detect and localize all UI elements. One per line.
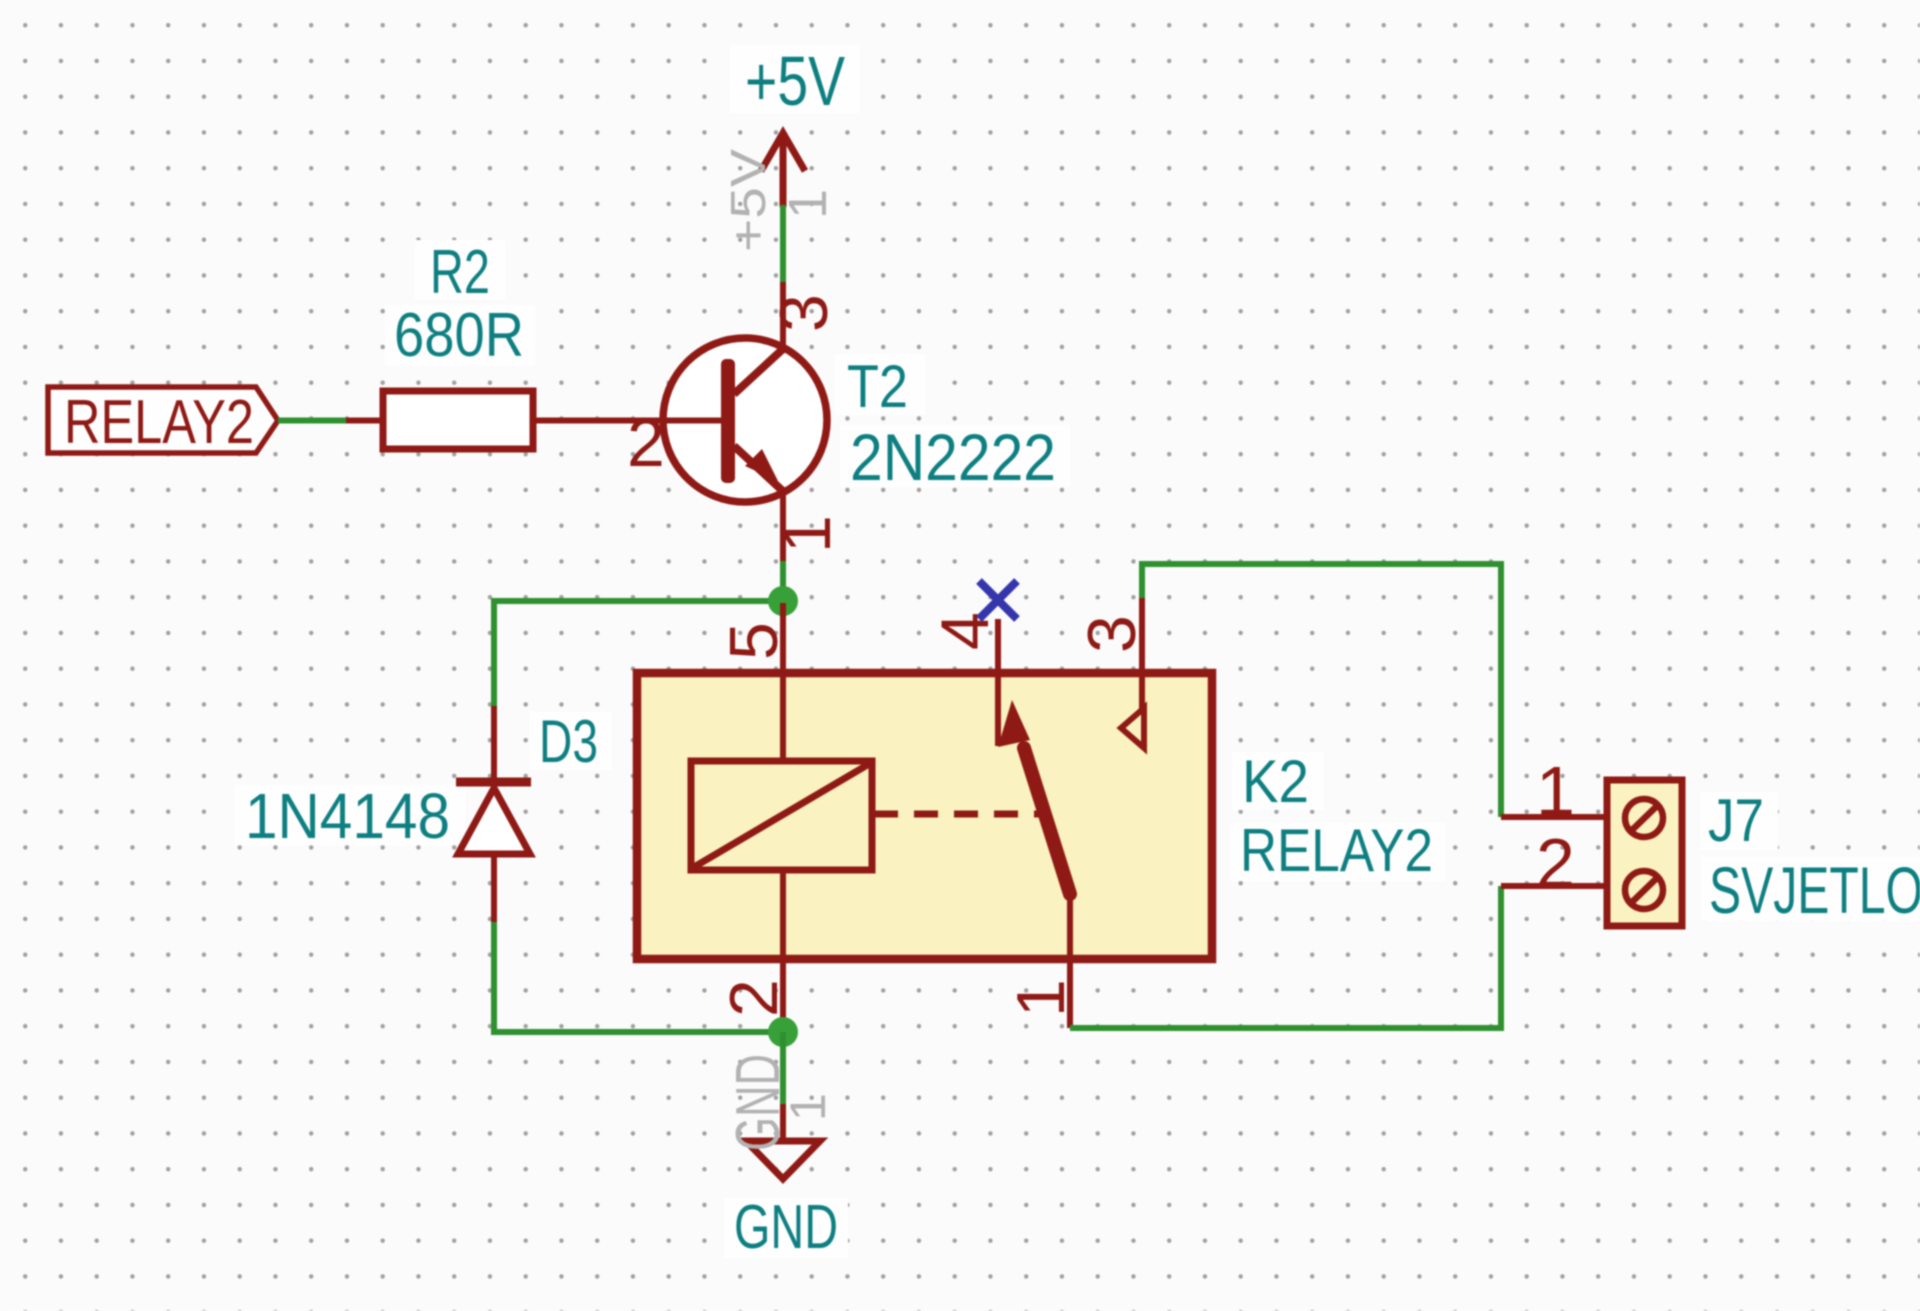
relay K2 body <box>637 673 1212 959</box>
transistor T2 pin 1 (emitter) <box>780 494 786 562</box>
svg-text:1N4148: 1N4148 <box>245 780 450 852</box>
svg-text:RELAY2: RELAY2 <box>1240 817 1433 884</box>
connector J7 screw 2 <box>1625 871 1663 909</box>
diode D3 cathode pin <box>491 706 497 782</box>
transistor T2 pin 3 <box>780 282 786 348</box>
junction dot B (GND) <box>768 1017 798 1047</box>
svg-text:SVJETLO: SVJETLO <box>1709 853 1920 927</box>
svg-text:K2: K2 <box>1242 748 1309 815</box>
diode D3 triangle <box>458 788 530 854</box>
connector J7 body <box>1607 780 1682 926</box>
svg-text:4: 4 <box>927 612 1003 650</box>
wire +5V to T2 collector <box>780 205 786 284</box>
svg-text:1: 1 <box>1003 979 1079 1017</box>
transistor T2 collector stroke <box>734 348 784 394</box>
diode D3 anode pin <box>491 854 497 923</box>
relay pin 5 <box>780 603 786 761</box>
wire junction to GND <box>780 1032 786 1104</box>
relay pin 3 contact triangle <box>1121 708 1144 748</box>
svg-text:1: 1 <box>778 189 838 219</box>
svg-text:+5V: +5V <box>745 42 845 120</box>
svg-text:T2: T2 <box>847 353 908 420</box>
relay pin 4 <box>995 619 1001 746</box>
wire relay pin3 to J7 pin1 <box>1142 564 1501 817</box>
svg-text:R2: R2 <box>430 238 490 307</box>
junction dot A <box>768 586 798 616</box>
svg-text:3: 3 <box>766 294 842 332</box>
svg-text:2: 2 <box>1536 824 1575 902</box>
svg-text:J7: J7 <box>1708 787 1764 854</box>
no-connect X <box>979 581 1017 619</box>
svg-text:D3: D3 <box>539 708 598 775</box>
svg-text:GND: GND <box>734 1193 838 1262</box>
ground pin <box>780 1104 786 1141</box>
connector J7 pin 1 <box>1501 814 1607 820</box>
resistor R2 body <box>383 391 533 449</box>
wire RELAY2 to R2 <box>278 418 346 424</box>
relay switch blade arrow <box>998 700 1030 747</box>
relay coil <box>691 761 872 870</box>
resistor R2 left pin <box>346 418 383 424</box>
svg-text:2N2222: 2N2222 <box>850 420 1056 494</box>
connector J7 pin 2 <box>1501 883 1607 889</box>
svg-text:1: 1 <box>769 515 845 553</box>
relay pin 1 (common) <box>1067 890 1073 1028</box>
svg-text:RELAY2: RELAY2 <box>64 388 254 457</box>
svg-text:680R: 680R <box>394 301 524 370</box>
power symbol +5V arrow pin <box>761 133 805 207</box>
diode D3 cathode bar <box>456 778 531 787</box>
wire D3 to GND junction <box>494 922 783 1032</box>
svg-text:2: 2 <box>627 405 665 481</box>
svg-text:3: 3 <box>1074 615 1150 653</box>
relay coil diagonal <box>694 764 869 867</box>
base wire R2 to T2 <box>533 418 721 424</box>
wire relay pin1 to J7 pin2 <box>1070 886 1501 1028</box>
connector J7 screw 1 <box>1625 799 1663 837</box>
wire junction to D3 top <box>494 601 783 707</box>
ground symbol triangle <box>746 1141 820 1179</box>
relay pin 3 <box>1139 598 1145 710</box>
transistor T2 body <box>663 338 827 502</box>
wire emitter to junction <box>780 561 786 601</box>
svg-text:2: 2 <box>716 979 792 1017</box>
relay pin 2 <box>780 870 786 1032</box>
svg-text:+5V: +5V <box>722 149 776 252</box>
svg-text:1: 1 <box>780 1093 836 1121</box>
transistor T2 emitter stroke <box>734 446 786 494</box>
transistor T2 emitter arrow <box>745 449 778 481</box>
svg-text:5: 5 <box>716 622 792 660</box>
transistor T2 base bar <box>721 359 735 483</box>
hierarchical label RELAY2 <box>48 387 278 453</box>
coil-contact dashed link <box>874 811 1042 818</box>
svg-text:1: 1 <box>1536 752 1575 830</box>
relay switch blade <box>1024 748 1070 894</box>
